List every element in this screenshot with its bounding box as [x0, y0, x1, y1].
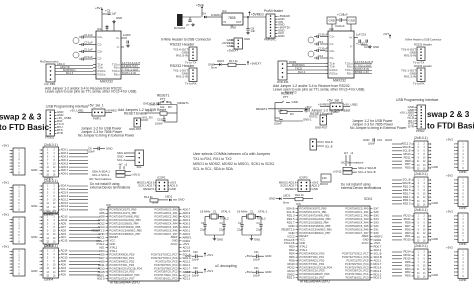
svg-text:SX7: SX7: [374, 207, 380, 211]
svg-text:RD12: RD12: [287, 265, 295, 269]
svg-text:C1-: C1-: [330, 42, 335, 46]
svg-text:C6: C6: [127, 33, 131, 37]
svg-text:XTAL1.B: XTAL1.B: [284, 241, 295, 245]
svg-text:SDA.A: SDA.A: [183, 256, 191, 260]
svg-text:AD1.5: AD1.5: [183, 246, 191, 250]
svg-text:RS232 Header: RS232 Header: [170, 43, 195, 47]
svg-text:100nF: 100nF: [192, 275, 200, 278]
svg-text:100nF: 100nF: [274, 122, 282, 126]
svg-text:AVCC: AVCC: [361, 241, 368, 245]
svg-text:+5VEXT: +5VEXT: [250, 62, 261, 66]
svg-text:RX1-2-IN: RX1-2-IN: [404, 75, 416, 79]
svg-text:GND: GND: [31, 168, 37, 172]
svg-text:No Jumper to bring in External: No Jumper to bring in External Power: [78, 134, 135, 138]
svg-text:FTDI01: FTDI01: [45, 136, 55, 140]
svg-text:4k7: 4k7: [344, 152, 349, 155]
svg-text:SX1: SX1: [374, 227, 380, 231]
svg-text:SCL.A: SCL.A: [117, 158, 125, 162]
svg-text:PCINT15/OC3B/SCK_PB7: PCINT15/OC3B/SCK_PB7: [110, 232, 141, 236]
svg-text:D4: D4: [202, 12, 206, 16]
svg-text:R14 4k: R14 4k: [144, 195, 153, 199]
svg-text:LED3: LED3: [217, 59, 224, 63]
svg-text:AREF: AREF: [171, 235, 178, 239]
svg-text:to FTDI Basic: to FTDI Basic: [427, 122, 474, 131]
svg-text:22pF: 22pF: [237, 228, 244, 232]
svg-text:GND: GND: [432, 273, 438, 277]
svg-text:XTAL1: XTAL1: [110, 249, 118, 253]
svg-text:+5V2: +5V2: [446, 174, 453, 178]
svg-text:SCL.A: SCL.A: [61, 187, 69, 191]
svg-text:PCINT12/OC0B/SS_PB4: PCINT12/OC0B/SS_PB4: [110, 221, 140, 225]
svg-text:+5Vin: +5Vin: [196, 4, 204, 8]
svg-text:C7: C7: [186, 23, 190, 27]
svg-text:swap 2 & 3: swap 2 & 3: [427, 110, 470, 119]
svg-text:SCL.A: SCL.A: [183, 253, 191, 257]
svg-text:+5V2: +5V2: [446, 210, 453, 214]
svg-text:MAX232: MAX232: [333, 79, 346, 83]
svg-text:PCINT0/ADC0_PA0: PCINT0/ADC0_PA0: [345, 207, 369, 211]
svg-text:MCO2: MCO2: [320, 182, 328, 186]
svg-text:IN: IN: [224, 21, 227, 24]
svg-text:T2In: T2In: [330, 64, 336, 68]
svg-text:C2-: C2-: [330, 56, 335, 60]
svg-text:PCINT25/TXD0_PD1: PCINT25/TXD0_PD1: [300, 255, 325, 259]
svg-text:GND: GND: [244, 37, 250, 41]
svg-text:XTAL2.B: XTAL2.B: [284, 238, 295, 242]
svg-text:C15: C15: [157, 118, 163, 122]
svg-text:RESET2: RESET2: [285, 187, 297, 191]
svg-text:C2-: C2-: [98, 56, 103, 60]
svg-text:GND: GND: [31, 235, 37, 239]
svg-text:PCINT21/TDI_PC5: PCINT21/TDI_PC5: [155, 259, 178, 263]
svg-text:AD15: AD15: [98, 270, 105, 274]
svg-text:C1+: C1+: [330, 34, 336, 38]
svg-text:AD15: AD15: [61, 239, 68, 243]
svg-text:RXD2-1-IN: RXD2-1-IN: [355, 70, 368, 74]
svg-text:AVCC: AVCC: [170, 242, 177, 246]
svg-text:AREF2: AREF2: [374, 234, 383, 238]
svg-text:GND: GND: [349, 19, 355, 23]
svg-text:AD2.6: AD2.6: [61, 191, 69, 195]
svg-text:RD6: RD6: [405, 263, 411, 267]
svg-text:GND: GND: [432, 237, 438, 241]
svg-text:9-Wire Header to DSB Connector: 9-Wire Header to DSB Connector: [405, 39, 442, 42]
svg-text:AD6: AD6: [61, 262, 67, 266]
svg-text:RD7: RD7: [405, 162, 411, 166]
svg-text:AD12: AD12: [61, 252, 68, 256]
svg-text:T2In: T2In: [98, 65, 104, 69]
svg-text:1uF: 1uF: [88, 40, 93, 44]
svg-text:PCINT7/ADC7_PA7: PCINT7/ADC7_PA7: [345, 231, 369, 235]
svg-text:PCINT9/CLKO/T1_PB1: PCINT9/CLKO/T1_PB1: [300, 210, 328, 214]
svg-text:Rx1 4: Rx1 4: [66, 71, 74, 75]
svg-text:PCINT13/ICP3/MOSI_PB5: PCINT13/ICP3/MOSI_PB5: [300, 224, 331, 228]
svg-text:1N4004: 1N4004: [211, 13, 221, 17]
svg-text:C30: C30: [193, 251, 198, 254]
svg-text:AD0.3: AD0.3: [61, 155, 69, 159]
svg-text:RD5: RD5: [405, 166, 411, 170]
svg-text:AD0.6: AD0.6: [61, 165, 69, 169]
svg-text:SX0: SX0: [374, 231, 380, 235]
svg-text:RD5: RD5: [405, 227, 411, 231]
svg-text:PCINT11/OC0A/AIN1_PB3: PCINT11/OC0A/AIN1_PB3: [300, 217, 332, 221]
svg-text:PCINT11/OC0A/AIN1_PB3: PCINT11/OC0A/AIN1_PB3: [110, 218, 142, 222]
svg-text:4k7: 4k7: [119, 164, 124, 167]
svg-text:GND: GND: [217, 238, 223, 242]
svg-text:RESET1: RESET1: [143, 187, 155, 191]
svg-text:ATMEGA644A-20PU: ATMEGA644A-20PU: [300, 280, 330, 284]
svg-text:R2Out: R2Out: [98, 72, 106, 76]
svg-text:AD0.5: AD0.5: [61, 161, 69, 165]
svg-text:GND-RST: GND-RST: [129, 127, 142, 131]
svg-text:RESET: RESET: [110, 235, 119, 239]
svg-text:I2C Terminations: I2C Terminations: [89, 177, 112, 181]
svg-text:+5V2: +5V2: [245, 254, 252, 258]
svg-text:IC4: IC4: [222, 9, 227, 13]
svg-text:SDA.B: SDA.B: [402, 181, 410, 185]
svg-text:+5V2: +5V2: [374, 241, 381, 245]
svg-text:PCINT7/ADC7_PA7: PCINT7/ADC7_PA7: [154, 232, 178, 236]
svg-text:AD1.6: AD1.6: [61, 204, 69, 208]
svg-text:PCINT0/ADC0_PA0: PCINT0/ADC0_PA0: [154, 208, 178, 212]
svg-text:PCINT18/TCK_PC2: PCINT18/TCK_PC2: [154, 270, 178, 274]
svg-text:C31: C31: [254, 251, 259, 254]
svg-text:MAX232: MAX232: [100, 80, 113, 84]
svg-text:XTAL2: XTAL2: [220, 217, 229, 221]
svg-text:PCINT4/ADC4_PA4: PCINT4/ADC4_PA4: [345, 220, 369, 224]
svg-text:SCL to SCL, SDA to SDA: SCL to SCL, SDA to SDA: [193, 167, 234, 171]
svg-text:I2C Terminations: I2C Terminations: [341, 161, 364, 165]
svg-text:PCINT1/ADC1_PA1: PCINT1/ADC1_PA1: [345, 210, 369, 214]
svg-text:PCINT21/TDI_PC5: PCINT21/TDI_PC5: [346, 258, 369, 262]
svg-text:AREF: AREF: [362, 234, 369, 238]
svg-text:1uF: 1uF: [340, 24, 345, 28]
svg-text:RD1.2: RD1.2: [374, 272, 382, 276]
svg-text:R16 4k: R16 4k: [295, 193, 304, 197]
svg-text:conn4: conn4: [44, 278, 53, 282]
svg-text:(2x8-0.1): (2x8-0.1): [414, 172, 428, 176]
svg-text:GND1: GND1: [183, 239, 191, 243]
svg-text:RX1-2-IN: RX1-2-IN: [176, 75, 188, 79]
svg-text:C1-: C1-: [98, 42, 103, 46]
svg-text:GND: GND: [300, 241, 306, 245]
svg-text:+5V_Sel_2: +5V_Sel_2: [327, 99, 343, 103]
svg-text:C2+: C2+: [330, 49, 336, 53]
svg-text:PCINT15/OC3B/SCK_PB7: PCINT15/OC3B/SCK_PB7: [300, 231, 331, 235]
svg-text:AD9: AD9: [99, 259, 105, 263]
svg-text:RD10: RD10: [403, 257, 411, 261]
svg-text:V-: V-: [350, 44, 353, 48]
svg-text:XTAL-1: XTAL-1: [258, 210, 268, 214]
svg-text:RD3: RD3: [405, 231, 411, 235]
svg-text:Tx-to-RX: Tx-to-RX: [413, 82, 425, 86]
svg-text:GND: GND: [312, 187, 318, 191]
svg-text:RD1.7: RD1.7: [287, 221, 295, 225]
svg-text:+5V1: +5V1: [146, 109, 153, 113]
svg-text:SCL.B: SCL.B: [374, 252, 382, 256]
svg-text:GND: GND: [31, 204, 37, 208]
svg-text:T2Out: T2Out: [345, 68, 353, 72]
svg-text:conn: conn: [459, 278, 466, 282]
svg-text:RD12: RD12: [403, 253, 411, 257]
svg-text:AD1.4: AD1.4: [61, 208, 69, 212]
svg-text:RS232 Header: RS232 Header: [414, 43, 432, 47]
svg-text:XTAL-1: XTAL-1: [221, 210, 231, 214]
svg-text:PTT: PTT: [283, 95, 289, 99]
svg-text:VCC2: VCC2: [287, 234, 295, 238]
svg-text:100nF: 100nF: [368, 143, 376, 146]
svg-text:+5V1: +5V1: [95, 6, 102, 10]
svg-text:PCINT20/TDO_PC4: PCINT20/TDO_PC4: [154, 263, 178, 267]
svg-text:PCINT30/OC2B/ICP_PD6: PCINT30/OC2B/ICP_PD6: [110, 273, 141, 277]
svg-text:7-TX1-1-OUT: 7-TX1-1-OUT: [122, 67, 139, 71]
svg-text:GND: GND: [432, 201, 438, 205]
svg-text:Tx-to-RX: Tx-to-RX: [185, 82, 197, 86]
svg-text:DTR: DTR: [57, 131, 63, 135]
svg-text:SX5: SX5: [374, 214, 380, 218]
svg-text:RD4: RD4: [405, 267, 411, 271]
svg-text:T2Out: T2Out: [112, 69, 120, 73]
svg-text:C1: C1: [213, 210, 217, 214]
svg-text:PCINT9/CLKO/T1_PB1: PCINT9/CLKO/T1_PB1: [110, 211, 138, 215]
svg-text:RD1.7: RD1.7: [403, 191, 411, 195]
svg-text:GND: GND: [170, 187, 176, 191]
svg-text:Con DB9: Con DB9: [44, 82, 56, 86]
svg-text:RD9: RD9: [405, 221, 411, 225]
svg-text:GND: GND: [292, 100, 298, 104]
svg-text:RD7: RD7: [405, 224, 411, 228]
svg-text:RD1.5: RD1.5: [287, 217, 295, 221]
svg-text:1uF: 1uF: [323, 46, 328, 50]
svg-text:AD0.2: AD0.2: [61, 151, 69, 155]
svg-text:GND: GND: [278, 34, 284, 38]
svg-text:AD3: AD3: [61, 232, 67, 236]
svg-text:+5V2: +5V2: [446, 138, 453, 142]
svg-text:RESET2: RESET2: [281, 92, 294, 96]
svg-text:GND: GND: [106, 147, 112, 151]
svg-text:PCINT16/SCL_PC0: PCINT16/SCL_PC0: [346, 276, 369, 280]
svg-text:SX3: SX3: [374, 221, 380, 225]
svg-text:PWR2: PWR2: [331, 110, 339, 114]
svg-text:RD0: RD0: [289, 245, 295, 249]
svg-text:GND: GND: [329, 19, 335, 23]
svg-text:RD1.3: RD1.3: [403, 185, 411, 189]
svg-text:AD0.4: AD0.4: [61, 158, 69, 162]
svg-text:SCL.B: SCL.B: [287, 210, 295, 214]
svg-text:AD6: AD6: [99, 211, 105, 215]
svg-text:22pF: 22pF: [219, 228, 226, 232]
svg-text:IC2: IC2: [329, 27, 334, 31]
svg-text:RD2.0: RD2.0: [287, 276, 295, 280]
svg-text:AD8: AD8: [99, 215, 105, 219]
svg-text:RD2: RD2: [405, 270, 411, 274]
svg-text:AD14: AD14: [61, 249, 68, 253]
svg-text:+5V_USB1: +5V_USB1: [70, 109, 84, 113]
svg-text:PCINT27/TXD1_PD3: PCINT27/TXD1_PD3: [300, 262, 325, 266]
svg-text:+5V1: +5V1: [2, 245, 9, 249]
svg-text:RD10: RD10: [287, 262, 295, 266]
svg-text:AD10: AD10: [98, 218, 105, 222]
svg-text:external Device terminations: external Device terminations: [90, 186, 131, 190]
svg-text:RD4: RD4: [289, 252, 295, 256]
svg-text:PCINT17/SDA_PC1: PCINT17/SDA_PC1: [154, 273, 178, 277]
svg-text:C19: C19: [361, 33, 367, 37]
svg-text:PCINT14/OC3A/MISO_PB6: PCINT14/OC3A/MISO_PB6: [300, 227, 333, 231]
svg-text:R4: R4: [290, 112, 294, 116]
svg-text:PCINT1/ADC1_PA1: PCINT1/ADC1_PA1: [154, 211, 178, 215]
svg-text:PCINT2/ADC2_PA2: PCINT2/ADC2_PA2: [345, 214, 369, 218]
svg-text:SCL-B: SCL-B: [325, 146, 333, 149]
svg-text:AD0.5: AD0.5: [183, 215, 191, 219]
svg-text:RD0.7: RD0.7: [374, 245, 382, 249]
svg-text:SX6: SX6: [374, 210, 380, 214]
svg-text:AD1: AD1: [99, 246, 105, 250]
svg-text:AD2.2: AD2.2: [374, 258, 382, 262]
svg-text:9-Wire Header to DSB Connector: 9-Wire Header to DSB Connector: [161, 38, 212, 42]
svg-text:TX1 to RX2, RX1 to TX2: TX1 to RX2, RX1 to TX2: [193, 157, 232, 161]
svg-text:RX1-5-IN: RX1-5-IN: [404, 54, 416, 58]
svg-text:8-RX1-2-IN: 8-RX1-2-IN: [122, 71, 136, 75]
svg-text:PCINT10/INT2/AIN0_PB2: PCINT10/INT2/AIN0_PB2: [110, 215, 140, 219]
svg-text:PCINT18/TCK_PC2: PCINT18/TCK_PC2: [345, 269, 369, 273]
svg-text:PWRSRC: PWRSRC: [264, 38, 276, 42]
svg-text:RD13: RD13: [403, 152, 411, 156]
svg-text:+5VREG: +5VREG: [318, 103, 329, 107]
svg-text:conn1: conn1: [44, 177, 53, 181]
svg-text:PCINT10/INT2/AIN0_PB2: PCINT10/INT2/AIN0_PB2: [300, 214, 330, 218]
svg-text:PCINT8/XCK0/T0_PB0: PCINT8/XCK0/T0_PB0: [110, 208, 137, 212]
svg-text:PCINT4/ADC4_PA4: PCINT4/ADC4_PA4: [154, 221, 178, 225]
svg-text:V+: V+: [349, 35, 353, 39]
svg-text:VCC: VCC: [300, 238, 306, 242]
svg-text:RST02: RST02: [309, 115, 318, 119]
svg-text:AD0.2: AD0.2: [183, 225, 191, 229]
svg-text:AD2.0: AD2.0: [61, 201, 69, 205]
svg-text:RD0: RD0: [405, 274, 411, 278]
svg-text:PTT: PTT: [160, 97, 166, 101]
svg-text:PCINT6/ADC6_PA6: PCINT6/ADC6_PA6: [154, 228, 178, 232]
svg-text:RD1.6: RD1.6: [374, 265, 382, 269]
svg-text:PCINT25/TXD0_PD1: PCINT25/TXD0_PD1: [110, 256, 135, 260]
svg-text:1uF: 1uF: [112, 12, 117, 16]
svg-text:ICSP1: ICSP1: [157, 176, 166, 180]
svg-text:(2x8-0.1): (2x8-0.1): [44, 143, 58, 147]
svg-text:GND2: GND2: [287, 272, 295, 276]
svg-text:C10: C10: [275, 116, 281, 120]
svg-text:PCINT26/RXD1_PD2: PCINT26/RXD1_PD2: [300, 258, 325, 262]
svg-text:+5VREG: +5VREG: [106, 109, 117, 113]
svg-text:AD0.6: AD0.6: [183, 211, 191, 215]
svg-text:GND: GND: [230, 26, 236, 30]
svg-text:+5V1: +5V1: [2, 181, 9, 185]
svg-text:PCINT28/XCK1/OC1B_PD4: PCINT28/XCK1/OC1B_PD4: [110, 266, 143, 270]
svg-text:OUT: OUT: [236, 21, 242, 24]
svg-text:GND: GND: [172, 239, 178, 243]
svg-text:AREF1: AREF1: [183, 235, 192, 239]
svg-text:PCINT12/OC0B/SS_PB4: PCINT12/OC0B/SS_PB4: [300, 220, 330, 224]
svg-text:AD10: AD10: [61, 256, 68, 260]
svg-text:+5V1: +5V1: [207, 269, 214, 273]
svg-text:PCINT5/ADC5_PA5: PCINT5/ADC5_PA5: [154, 225, 178, 229]
svg-text:conn2: conn2: [44, 213, 53, 217]
svg-text:GND: GND: [254, 238, 260, 242]
svg-text:conn: conn: [459, 170, 466, 174]
svg-text:+5VT: +5VT: [383, 33, 390, 36]
svg-text:PCINT28/XCK1/OC1B_PD4: PCINT28/XCK1/OC1B_PD4: [300, 265, 333, 269]
svg-text:+5VEXT: +5VEXT: [227, 49, 238, 53]
svg-text:ICSP2: ICSP2: [299, 176, 308, 180]
svg-text:PCINT20/TDO_PC4: PCINT20/TDO_PC4: [345, 262, 369, 266]
svg-text:SDA.A: SDA.A: [61, 184, 69, 188]
svg-text:1uF: 1uF: [88, 33, 93, 37]
svg-text:AD1.4: AD1.4: [183, 273, 191, 277]
svg-text:PPS02: PPS02: [416, 129, 425, 133]
svg-text:RxDisconnect: RxDisconnect: [40, 60, 59, 64]
svg-text:AD11: AD11: [61, 218, 68, 222]
svg-text:GND1: GND1: [97, 273, 105, 277]
svg-text:GND: GND: [178, 198, 184, 202]
svg-text:C31: C31: [254, 267, 259, 270]
svg-text:XTAL1: XTAL1: [96, 242, 105, 246]
svg-text:AD0.1: AD0.1: [61, 148, 69, 152]
svg-text:7805: 7805: [228, 16, 236, 20]
svg-text:+5V1_R3: +5V1_R3: [141, 116, 153, 120]
svg-text:DTR: DTR: [408, 124, 414, 128]
svg-text:C21: C21: [364, 45, 370, 49]
svg-text:RESET1: RESET1: [178, 101, 190, 105]
svg-text:RD13: RD13: [403, 214, 411, 218]
svg-text:PCINT16/SCL_PC0: PCINT16/SCL_PC0: [155, 277, 178, 281]
svg-text:PCINT24/RXD0_PD0: PCINT24/RXD0_PD0: [300, 251, 325, 255]
svg-text:RD14: RD14: [287, 269, 295, 273]
svg-text:MISO1 to MOSI2, MOSI2 to MISO1: MISO1 to MOSI2, MOSI2 to MISO1, SCK1 to …: [193, 162, 274, 166]
svg-text:RD1.5: RD1.5: [403, 188, 411, 192]
svg-text:PCINT24/RXD0_PD0: PCINT24/RXD0_PD0: [110, 252, 135, 256]
svg-text:C14: C14: [318, 40, 324, 44]
svg-text:(2x8-0.1): (2x8-0.1): [414, 244, 428, 248]
svg-text:AD0.4: AD0.4: [183, 218, 191, 222]
svg-text:+5V1: +5V1: [183, 242, 190, 246]
svg-text:+5V1: +5V1: [2, 144, 9, 148]
svg-text:R1In: R1In: [347, 64, 353, 68]
svg-text:PCINT27/TXD1_PD3: PCINT27/TXD1_PD3: [110, 263, 135, 267]
svg-text:13-RX1-5-IN: 13-RX1-5-IN: [122, 64, 137, 68]
svg-text:+5V2: +5V2: [446, 246, 453, 250]
svg-text:PCINT3/ADC3_PA3: PCINT3/ADC3_PA3: [154, 218, 178, 222]
svg-text:SCK2: SCK2: [364, 197, 373, 201]
svg-text:R1Out: R1Out: [330, 68, 338, 72]
svg-text:AD1.6: AD1.6: [183, 270, 191, 274]
svg-text:R3: R3: [168, 105, 172, 109]
svg-text:SDA.B: SDA.B: [402, 145, 410, 149]
svg-text:C1+: C1+: [98, 35, 104, 39]
svg-text:GND: GND: [373, 45, 379, 49]
svg-text:V-: V-: [117, 45, 120, 49]
svg-text:SCL-2 SCL-B: SCL-2 SCL-B: [358, 170, 376, 174]
svg-text:PCINT5/ADC5_PA5: PCINT5/ADC5_PA5: [345, 224, 369, 228]
svg-text:PCINT26/RXD1_PD2: PCINT26/RXD1_PD2: [110, 259, 135, 263]
svg-text:AD7: AD7: [99, 256, 105, 260]
svg-text:(+5V1): (+5V1): [132, 173, 140, 177]
svg-text:RX1-5-IN: RX1-5-IN: [176, 54, 188, 58]
svg-text:RD1: RD1: [405, 234, 411, 238]
svg-text:+5V1: +5V1: [207, 253, 214, 257]
svg-text:7-TX2-1-OUT: 7-TX2-1-OUT: [355, 63, 372, 67]
svg-text:5mm: 5mm: [283, 201, 290, 205]
svg-text:conn: conn: [459, 242, 466, 246]
svg-text:22pF: 22pF: [200, 228, 207, 232]
svg-text:XTAL2: XTAL2: [257, 217, 266, 221]
